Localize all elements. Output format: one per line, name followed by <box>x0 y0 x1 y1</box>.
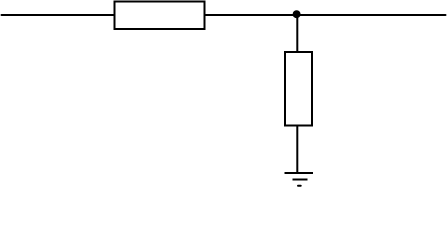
ground <box>285 173 314 186</box>
wire: main horizontal net <box>2 14 446 16</box>
node junction dot <box>293 10 301 18</box>
resistor R2 (shunt, vertical body) <box>285 52 312 126</box>
resistor R1 (series, horizontal body) <box>115 2 205 30</box>
wire: vertical branch from node to ground <box>296 15 298 173</box>
